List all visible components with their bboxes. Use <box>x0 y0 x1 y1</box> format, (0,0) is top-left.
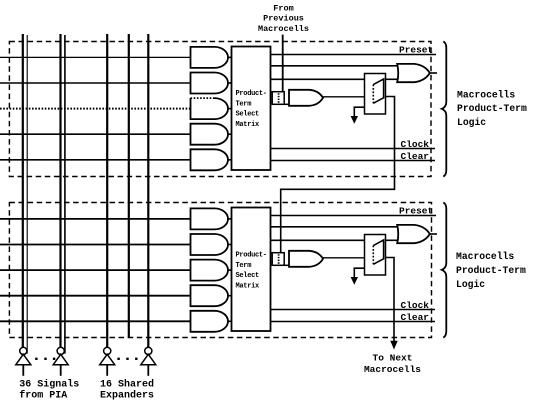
block 2 label Clear <box>401 312 430 323</box>
block 2 product-term row 5 wire <box>0 320 191 322</box>
svg-text:Term: Term <box>236 262 252 270</box>
block 2 wire expander OR output to mux <box>322 257 364 259</box>
block 1 wire OR output <box>430 72 437 74</box>
block 1 label Preset <box>399 45 433 56</box>
block 2 clock wire <box>271 309 436 311</box>
block 1 product-term row 3 wire (expander, dotted) <box>0 108 191 110</box>
block 1 wire matrix to expander mux <box>271 78 365 80</box>
label From Previous Macrocells <box>258 3 309 34</box>
svg-text:Clock: Clock <box>401 300 430 311</box>
block 1 preset wire <box>271 54 437 56</box>
svg-text:Macrocells: Macrocells <box>364 364 421 375</box>
block 2 wire mux to OR gate bottom input <box>386 239 398 241</box>
input buffer 3 (shared expander) <box>100 347 115 376</box>
label To Next Macrocells <box>364 353 421 375</box>
svg-text:Logic: Logic <box>457 117 486 128</box>
block 2 AND gate PT5 <box>191 311 229 332</box>
block 2 preset wire <box>271 215 437 217</box>
wire expander column middle <box>128 34 130 338</box>
block 2 product-term row 2 wire <box>0 244 191 246</box>
wire expander column 1 <box>106 34 108 348</box>
block 1 AND gate PT4 <box>191 124 229 145</box>
block 2 wire to next macrocells <box>386 258 398 350</box>
svg-text:Product-: Product- <box>236 90 267 98</box>
block 1 wire matrix to OR gate top input <box>271 65 398 67</box>
svg-text:Select: Select <box>236 272 260 280</box>
svg-text:Preset: Preset <box>399 206 433 217</box>
block 2 label Preset <box>399 206 433 217</box>
svg-text:To Next: To Next <box>373 353 413 364</box>
block 1 product-term row 5 wire <box>0 159 191 161</box>
block 2 parallel expander mux box <box>365 235 386 276</box>
svg-text:Matrix: Matrix <box>236 121 261 129</box>
block 2 product-term row 1 wire <box>0 218 191 220</box>
svg-text:Term: Term <box>236 100 252 108</box>
block 2 arrow to expander array <box>351 268 365 285</box>
label 36 Signals from PIA <box>19 378 79 401</box>
block 2 clear wire <box>271 321 436 323</box>
block 2 wire OR output <box>430 233 437 235</box>
block 1 expander select box <box>272 92 289 105</box>
block 1 wires AND outputs to matrix <box>228 57 232 159</box>
block 1 brace <box>442 42 447 177</box>
block 1 product-term row 4 wire <box>0 133 191 135</box>
block 1 OR gate <box>397 64 430 82</box>
block 1 label Macrocells Product-Term Logic <box>457 89 527 128</box>
ellipsis between expander buffers <box>117 358 137 360</box>
label 16 Shared Expanders <box>100 378 154 401</box>
block 2 wires AND outputs to matrix <box>228 219 232 321</box>
svg-text:Preset: Preset <box>399 45 433 56</box>
svg-text:From: From <box>273 3 293 13</box>
block 1 clear wire <box>271 160 436 162</box>
block 1 label Clear <box>401 151 430 162</box>
block 2 AND gate PT4 <box>191 285 229 306</box>
svg-text:Select: Select <box>236 111 260 119</box>
svg-text:Product-Term: Product-Term <box>457 103 527 114</box>
wire PIA column 1 feedback <box>26 35 28 354</box>
block 2 AND gate PT3 <box>191 260 229 281</box>
block 2 wire matrix to expander select box <box>271 252 273 254</box>
input buffer 2 (PIA signal) <box>53 347 68 376</box>
input buffer 1 (PIA signal) <box>16 347 31 376</box>
wire PIA column 2 feedback <box>64 35 66 354</box>
block 2 mux parallelogram <box>373 240 383 264</box>
svg-text:Product-: Product- <box>236 252 267 260</box>
block 1 AND gate PT2 <box>191 73 229 94</box>
block 1 wire from previous macrocells <box>282 35 284 92</box>
block 2 expander OR gate <box>289 251 323 267</box>
svg-text:Matrix: Matrix <box>236 283 261 291</box>
block 1 product-term row 2 wire <box>0 82 191 84</box>
block 1 mux parallelogram <box>373 79 383 103</box>
svg-text:Previous: Previous <box>263 14 304 24</box>
block 2 product-term row 4 wire <box>0 295 191 297</box>
block 1 clock wire <box>271 148 436 150</box>
svg-text:36 Signals: 36 Signals <box>19 378 79 390</box>
wire expander column 2 <box>147 34 149 348</box>
block 1 wire to next macrocell chain <box>281 97 395 253</box>
block 1 product-term select matrix <box>232 47 271 171</box>
block 2 expander select box <box>272 253 289 266</box>
macrocell block 2 dashed border <box>9 203 431 338</box>
svg-text:Macrocells: Macrocells <box>456 251 514 262</box>
block 2 product-term select matrix <box>232 208 271 332</box>
macrocell block 1 dashed border <box>9 42 431 177</box>
block 2 wire matrix to expander mux <box>271 239 365 241</box>
block 2 label Clock <box>401 300 430 311</box>
svg-text:from PIA: from PIA <box>19 390 67 402</box>
wire PIA column 1 <box>22 34 24 348</box>
svg-text:Macrocells: Macrocells <box>457 89 515 100</box>
block 1 wire expander OR output to mux <box>322 96 364 98</box>
block 1 label Clock <box>401 139 430 150</box>
block 1 expander OR gate <box>289 90 323 106</box>
block 2 product-term row 3 wire <box>0 269 191 271</box>
block 1 wire matrix to expander select box <box>271 91 273 93</box>
block 1 AND gate PT5 <box>191 149 228 170</box>
ellipsis between PIA buffers <box>35 358 55 360</box>
block 1 AND gate PT3 (expander term, dotted top) <box>191 98 229 119</box>
svg-text:Clear: Clear <box>401 312 430 323</box>
block 2 label Macrocells Product-Term Logic <box>456 251 526 290</box>
svg-text:Macrocells: Macrocells <box>258 24 309 34</box>
wire PIA column 2 <box>59 34 61 348</box>
svg-text:Expanders: Expanders <box>100 390 154 402</box>
block 1 AND gate PT1 <box>191 47 229 68</box>
svg-text:Product-Term: Product-Term <box>456 265 526 276</box>
block 1 arrow to expander array <box>351 107 365 124</box>
block 1 product-term row 1 wire <box>0 56 191 58</box>
block 2 wire matrix to OR gate top input <box>271 226 398 228</box>
svg-text:Clock: Clock <box>401 139 430 150</box>
svg-text:16 Shared: 16 Shared <box>100 378 154 390</box>
svg-text:Logic: Logic <box>456 279 485 290</box>
input buffer 4 (shared expander) <box>141 347 156 376</box>
block 2 AND gate PT1 <box>191 208 229 229</box>
block 1 parallel expander mux box <box>365 74 386 115</box>
block 2 AND gate PT2 <box>191 234 229 255</box>
svg-text:Clear: Clear <box>401 151 430 162</box>
block 1 wire mux to OR gate bottom input <box>386 78 398 80</box>
block 2 OR gate <box>397 225 430 243</box>
block 2 brace <box>442 203 447 338</box>
